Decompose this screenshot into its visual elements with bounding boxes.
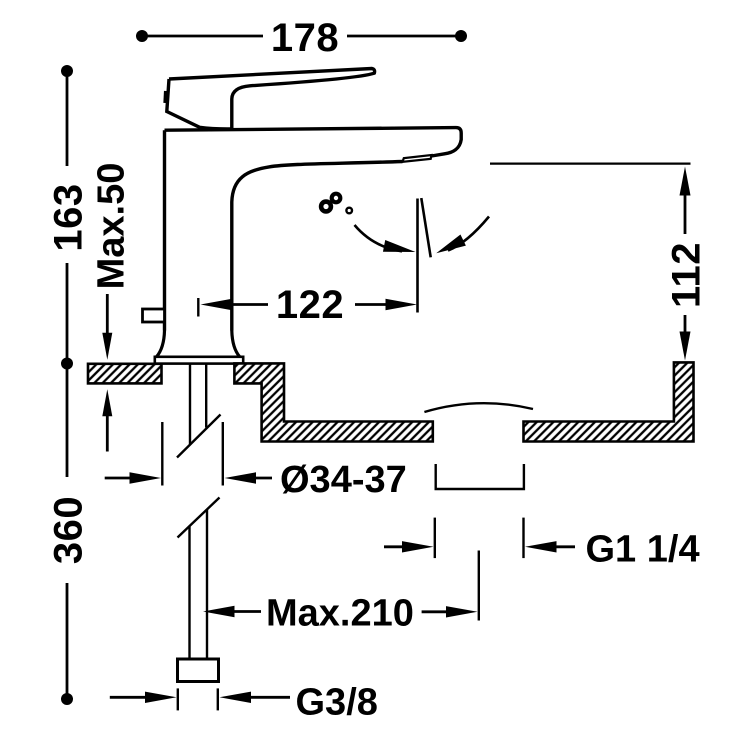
base flare left: [157, 331, 165, 357]
dimension G3/8 right tick: [217, 688, 219, 710]
Max.210 reference line: [478, 551, 480, 621]
lever left edge detail bump: [163, 91, 168, 103]
svg-text:178: 178: [271, 16, 339, 60]
left side protrusion: [143, 309, 165, 322]
dimension O34-37 left arrow: [105, 477, 135, 480]
dimension 112 lower arrow: [684, 315, 687, 332]
dimension O34-37 right arrow: [225, 472, 257, 483]
dimension 163 end dots: [61, 65, 73, 77]
dimension G3/8 left tick: [177, 688, 179, 710]
dimension O34-37 right tick: [222, 422, 224, 486]
svg-text:112: 112: [664, 242, 708, 308]
Max.50 upper arrow: [106, 294, 109, 334]
dimension O34-37 left tick: [161, 422, 163, 486]
dimension 178 line: [142, 35, 461, 38]
svg-text:G1 1/4: G1 1/4: [586, 528, 700, 570]
faucet body left edge: [163, 130, 166, 330]
supply pipe lower left line: [188, 527, 190, 660]
dimension 122 right arrow: [355, 303, 390, 306]
handle tilted position line: [421, 198, 430, 257]
spout underside curve: [232, 162, 403, 331]
svg-text:G3/8: G3/8: [296, 682, 378, 724]
pipe end connector block: [178, 659, 219, 682]
rotation arc left: [355, 225, 403, 251]
svg-text:163: 163: [46, 183, 90, 251]
dimension 122 left arrow: [201, 299, 233, 310]
svg-text:122: 122: [276, 283, 344, 327]
dimension G1 1/4 left tick: [434, 518, 436, 559]
supply pipe upper left line: [189, 364, 191, 445]
svg-text:Ø34-37: Ø34-37: [280, 459, 407, 501]
lever left edge: [167, 79, 232, 129]
drain hole bracket: [436, 464, 524, 489]
handle rotation axis line: [416, 199, 419, 313]
rotation arc right: [448, 217, 489, 251]
faucet lever handle: [169, 69, 375, 129]
dimension 178 end dots: [136, 30, 148, 42]
svg-text:Max.210: Max.210: [266, 593, 414, 635]
dimension 112 upper arrow: [680, 167, 691, 196]
8 degree label degree ring: [346, 208, 352, 214]
dimension 360 end dot: [61, 693, 73, 705]
faucet body top edge and spout right face: [165, 128, 462, 156]
dimension 122 left tick: [197, 298, 199, 317]
dimension G3/8 right arrow: [220, 692, 252, 703]
8 degree label circle B: [332, 194, 341, 203]
supply pipe upper right line: [205, 364, 207, 428]
dimension 112 top reference line: [490, 163, 691, 165]
base flange: [155, 357, 243, 364]
dimension Max.210 left arrow: [203, 606, 235, 617]
countertop right L-shaped section: [524, 362, 694, 441]
countertop center stepped section: [234, 363, 432, 441]
8 degree label circle A: [321, 202, 331, 212]
dimension 360 line: [66, 366, 69, 699]
dimension G1 1/4 left arrow: [384, 545, 404, 548]
supply pipe lower right line: [206, 509, 208, 659]
dimension Max.210 right arrow: [422, 610, 450, 613]
dimension G3/8 left arrow: [110, 696, 148, 699]
svg-text:Max.50: Max.50: [90, 163, 132, 290]
Max.50 lower arrow: [106, 415, 109, 452]
base flare right: [232, 331, 240, 357]
dimension G1 1/4 right tick: [522, 518, 524, 559]
basin drain dome arc: [424, 403, 533, 412]
countertop left section: [88, 364, 162, 384]
svg-text:360: 360: [46, 496, 90, 564]
dimension G1 1/4 right arrow: [525, 541, 557, 552]
pipe break slash 1: [177, 415, 221, 458]
dimension 163 line: [66, 71, 69, 364]
aerator outlet tab: [403, 155, 432, 162]
pipe break slash 2: [178, 498, 220, 538]
